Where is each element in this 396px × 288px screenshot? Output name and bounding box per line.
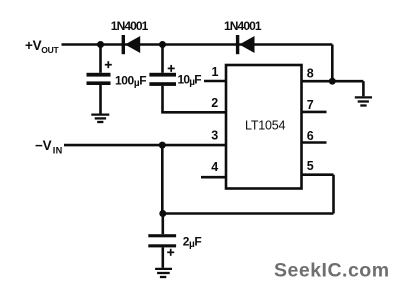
wire bottom rail <box>162 212 333 215</box>
svg-text:2: 2 <box>211 96 218 110</box>
pin 1 stub <box>204 80 226 83</box>
svg-text:LT1054: LT1054 <box>245 119 286 133</box>
svg-text:8: 8 <box>307 67 314 81</box>
label C2 polarity + <box>168 65 175 72</box>
svg-text:SeekIC.com: SeekIC.com <box>274 260 390 282</box>
capacitor C3 2uF <box>148 214 176 268</box>
svg-text:5: 5 <box>307 159 314 173</box>
ground GND2 (right of pin 8) <box>355 81 372 105</box>
svg-text:1N4001: 1N4001 <box>111 19 149 33</box>
node junction dot E (bottom rail) <box>159 210 166 217</box>
capacitor C1 100uF <box>87 45 111 114</box>
svg-text:7: 7 <box>307 98 314 112</box>
svg-text:4: 4 <box>211 160 218 174</box>
diode D1 1N4001 <box>122 35 141 54</box>
node junction dot A (top rail / 100uF) <box>97 41 104 48</box>
pin 5 wire <box>302 173 334 176</box>
svg-text:3: 3 <box>211 128 218 142</box>
node junction dot D (pin8 / top rail drop) <box>329 78 336 85</box>
op-amp U1 LT1054 body <box>226 65 302 189</box>
node junction dot C (-VIN / vertical) <box>159 142 166 149</box>
diode D2 1N4001 <box>236 35 255 54</box>
wire pin2 from C2 <box>161 111 226 114</box>
pin 4 stub <box>201 176 226 179</box>
svg-text:1N4001: 1N4001 <box>224 19 262 33</box>
pin 8 wire to ground <box>302 80 364 83</box>
wire top rail +VOUT <box>62 43 333 46</box>
wire vertical -VIN junction down <box>161 145 164 213</box>
svg-text:1: 1 <box>212 65 219 79</box>
node junction dot B (top rail / 10uF) <box>159 41 166 48</box>
wire right drop from top rail <box>331 45 334 82</box>
ground GND1 (under C1) <box>91 115 109 122</box>
label C1 polarity + <box>105 61 112 68</box>
pin 6 stub <box>302 141 327 144</box>
label C3 polarity + <box>167 249 174 256</box>
ground GND3 (under C3) <box>155 269 172 277</box>
capacitor C2 10uF <box>149 45 176 113</box>
svg-text:6: 6 <box>307 129 314 143</box>
wire right riser to pin 5 <box>332 175 335 214</box>
pin 7 stub <box>302 111 327 114</box>
wire -VIN to pin 3 <box>64 144 226 147</box>
svg-text:100µF: 100µF <box>115 73 146 89</box>
